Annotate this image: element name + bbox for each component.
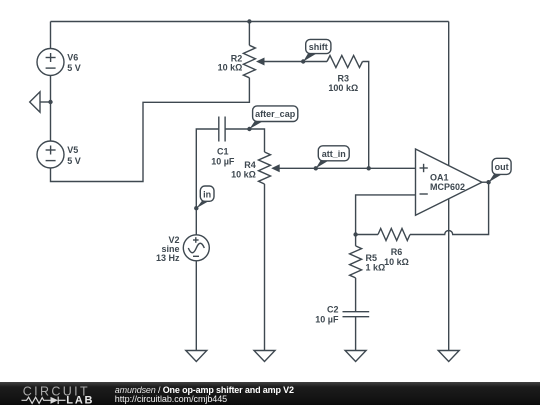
svg-text:1 kΩ: 1 kΩ [366, 263, 386, 273]
logo resistor zigzag and diode [22, 397, 66, 405]
V6 minus marker [46, 67, 56, 69]
svg-text:att_in: att_in [322, 149, 346, 159]
V6 plus marker [46, 57, 56, 59]
op-amp OA1 triangle [416, 149, 483, 215]
V2 plus marker [193, 239, 199, 241]
svg-text:5 V: 5 V [67, 63, 81, 73]
svg-text:LAB: LAB [66, 395, 94, 405]
ground for R4 [254, 351, 275, 362]
logo diode triangle [51, 397, 59, 404]
svg-text:10 µF: 10 µF [315, 315, 339, 325]
svg-text:10 kΩ: 10 kΩ [231, 169, 256, 179]
wire R4 bottom to ground [264, 184, 266, 351]
node A dot R5/R6/minus-input junction [353, 232, 357, 236]
node shift dot [301, 59, 305, 63]
svg-text:out: out [495, 162, 509, 172]
node out dot [486, 180, 490, 184]
wire R2 wiper to shift to R3 [258, 61, 327, 63]
capacitor C1 plates [218, 117, 220, 142]
V5 plus marker [46, 149, 56, 151]
wire op-amp supply drop (V+ to V- rail) [448, 22, 450, 351]
svg-text:C2: C2 [327, 305, 339, 315]
V2 sine wave [188, 243, 204, 253]
svg-text:100 kΩ: 100 kΩ [328, 83, 358, 93]
wire V5 bottom loop to R2 bottom [51, 78, 250, 182]
svg-text:R5: R5 [366, 253, 378, 263]
junction dot top rail / R2 [247, 19, 251, 23]
node in dot [194, 206, 198, 210]
resistor R6 zigzag [378, 229, 410, 241]
R4 wiper arrow [271, 164, 280, 172]
node label out [489, 173, 503, 182]
wire node A to R6 left lead [356, 234, 378, 236]
svg-text:5 V: 5 V [67, 156, 81, 166]
svg-text:13 Hz: 13 Hz [156, 253, 180, 263]
resistor R5 zigzag [350, 246, 362, 278]
voltage source V5 circle [37, 141, 64, 168]
svg-text:10 kΩ: 10 kΩ [218, 63, 243, 73]
op-amp minus input marker [420, 193, 428, 195]
svg-text:V6: V6 [67, 53, 78, 63]
reference flag triangle at V6/V5 node [40, 101, 51, 103]
node label in [196, 200, 210, 208]
svg-text:10 kΩ: 10 kΩ [384, 257, 409, 267]
junction dot V6/V5 reference node [48, 100, 52, 104]
svg-text:OA1: OA1 [430, 172, 449, 182]
wire op-amp minus input loop [356, 195, 416, 235]
junction dot R3 drop / plus input [367, 166, 371, 170]
node label after_cap [249, 120, 264, 129]
capacitor C2 plates [343, 311, 370, 313]
node att_in dot [314, 166, 318, 170]
V5 minus marker [46, 160, 56, 162]
resistor R2 zigzag (potentiometer body) [243, 45, 255, 78]
node label att_in [316, 159, 330, 168]
svg-text:MCP602: MCP602 [430, 182, 465, 192]
wire V2 bottom to ground [195, 260, 197, 350]
svg-text:R6: R6 [391, 247, 403, 257]
svg-text:shift: shift [309, 42, 328, 52]
op-amp plus input marker [420, 167, 428, 169]
voltage source V6 circle [37, 49, 64, 76]
ground for op-amp V- [438, 351, 459, 362]
wire V6 bottom to mid node [50, 76, 52, 103]
node label shift [303, 53, 317, 62]
resistor R4 zigzag (potentiometer body) [259, 152, 271, 184]
svg-text:10 µF: 10 µF [211, 156, 235, 166]
wire mid node to V5 top [50, 102, 52, 141]
V2 minus marker [193, 255, 199, 257]
wire R4 wiper att_in to op-amp plus input [273, 167, 416, 169]
svg-text:V5: V5 [67, 145, 78, 155]
wire R3 right lead and drop to plus input [363, 62, 369, 169]
wire C1 right lead to R4 top [225, 129, 264, 152]
wire top supply rail [51, 21, 449, 23]
R2 wiper arrow [256, 58, 265, 66]
svg-text:in: in [203, 189, 211, 199]
svg-text:after_cap: after_cap [255, 109, 296, 119]
wire C2 bottom to ground [355, 317, 357, 351]
svg-text:http://circuitlab.com/cmjb445: http://circuitlab.com/cmjb445 [115, 394, 227, 404]
wire output feedback drop and run with hop [410, 182, 489, 234]
ground for C2 [345, 351, 366, 362]
wire R5 bottom to C2 top [355, 278, 357, 312]
wire V6 top lead [50, 22, 52, 49]
wire R5 top lead [355, 235, 357, 246]
wire C1 left lead down to V2 [196, 129, 219, 235]
svg-text:R3: R3 [338, 74, 350, 84]
ground for V2 [186, 351, 207, 362]
wire R2 top lead [248, 22, 250, 46]
wire op-amp output stub [482, 181, 489, 183]
svg-text:C1: C1 [217, 147, 229, 157]
resistor R3 zigzag [327, 56, 363, 68]
voltage source V2 circle [183, 235, 209, 261]
node after_cap dot [247, 127, 251, 131]
